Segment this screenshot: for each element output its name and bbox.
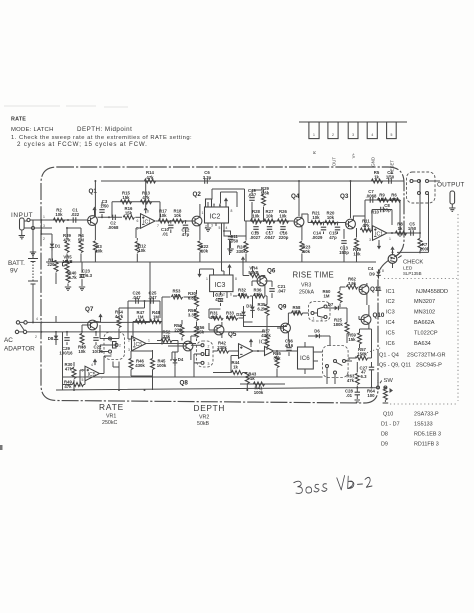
transistor Q2: [192, 216, 202, 226]
svg-text:R5233k: R5233k: [163, 330, 171, 339]
IC2 top pins: [208, 202, 226, 207]
capacitor C12: [183, 225, 188, 228]
svg-text:Q5: Q5: [228, 331, 237, 338]
connector pin 2: [328, 122, 338, 139]
resistor R21: [311, 221, 322, 225]
svg-text:OUTPUT: OUTPUT: [437, 182, 464, 189]
svg-text:R1515k: R1515k: [122, 191, 130, 201]
svg-text:RD11FB 3: RD11FB 3: [414, 442, 439, 448]
svg-text:250kA: 250kA: [299, 290, 314, 296]
svg-text:8: 8: [235, 277, 237, 281]
wire Q3 collector right: [353, 216, 370, 230]
svg-text:VR3: VR3: [301, 283, 311, 289]
wire C19 R29 top: [252, 189, 264, 191]
svg-text:R45100k: R45100k: [157, 359, 167, 368]
svg-text:C26.047: C26.047: [132, 291, 141, 300]
resistor R17: [158, 219, 169, 223]
svg-text:BATT.: BATT.: [8, 260, 25, 267]
svg-text:2: 2: [119, 344, 121, 348]
svg-text:RD5.1EB 3: RD5.1EB 3: [414, 432, 441, 438]
diode D2: [241, 309, 246, 318]
svg-text:SW: SW: [384, 378, 394, 384]
svg-text:BA634: BA634: [414, 341, 431, 347]
resistor R50: [180, 325, 184, 336]
wire IC4 out: [253, 350, 298, 352]
resistor R30b: [72, 367, 76, 378]
ground under output jack: [449, 208, 455, 211]
resistor R1: [54, 260, 58, 271]
connector pin 5: [387, 122, 397, 139]
svg-text:C21.047: C21.047: [277, 284, 286, 293]
output jack J2: [450, 191, 455, 204]
resistor R22: [198, 241, 202, 252]
svg-text:R2210k: R2210k: [201, 244, 209, 254]
capacitor C6 on top bus: [205, 178, 208, 183]
ground arrow IC3 elbow: [197, 271, 201, 278]
transistor Q3: [346, 219, 356, 229]
svg-text:IC2: IC2: [210, 214, 221, 221]
capacitor C36: [286, 348, 291, 351]
resistor R19: [355, 238, 359, 249]
node input junction: [40, 219, 42, 221]
op-amp IC1b: [373, 226, 388, 241]
svg-text:Q11: Q11: [370, 286, 382, 293]
svg-text:5: 5: [82, 378, 84, 382]
svg-text:R295.6k: R295.6k: [261, 186, 270, 196]
node after C2: [108, 216, 110, 218]
svg-text:4: 4: [371, 133, 373, 137]
resistor R58: [291, 311, 302, 315]
IC6 BA634: [298, 347, 314, 369]
resistor R57: [356, 356, 367, 360]
transistor Q11: [359, 285, 369, 295]
svg-text:IC1: IC1: [375, 232, 383, 238]
connector CN rail: [299, 121, 407, 123]
diode D8: [54, 333, 59, 342]
resistor R33: [226, 316, 237, 320]
handwritten title: [294, 474, 373, 494]
wire IC3 elbow: [200, 269, 214, 272]
transistor Q4: [294, 217, 304, 227]
svg-text:R332.7k: R332.7k: [226, 311, 235, 320]
wire Q7 base: [82, 325, 88, 332]
svg-text:C111/50: C111/50: [230, 234, 239, 244]
wire footswitch leads: [327, 361, 352, 384]
svg-text:R5615k: R5615k: [197, 325, 205, 334]
wire depth row: [244, 322, 287, 327]
node C3: [101, 216, 103, 218]
wire output column: [419, 181, 421, 252]
resistor R25: [345, 322, 349, 333]
svg-text:AC: AC: [4, 337, 13, 344]
wire VR2 leads: [191, 345, 201, 377]
transistor Q7: [88, 320, 98, 330]
VR3 pot dashed box: [309, 302, 331, 322]
svg-text:R57150k: R57150k: [357, 347, 367, 356]
capacitor C15: [335, 227, 340, 230]
op-amp IC5a: [132, 336, 147, 351]
resistor R31: [212, 316, 223, 320]
svg-text:Q3: Q3: [340, 193, 349, 200]
svg-text:Q10: Q10: [383, 412, 393, 418]
svg-text:C16220p: C16220p: [279, 231, 289, 240]
dotted leader to transistor list: [346, 348, 381, 361]
PCB outline (dash-dot): [41, 167, 404, 403]
svg-text:R1347k: R1347k: [142, 191, 150, 201]
svg-text:D8: D8: [48, 336, 54, 341]
svg-text:5: 5: [219, 226, 221, 230]
node IC1b out: [391, 232, 393, 234]
svg-text:R356.2k: R356.2k: [257, 302, 266, 311]
ground under R3: [94, 251, 96, 262]
connector pin 3: [348, 122, 358, 139]
resistor R6: [389, 198, 400, 202]
svg-text:BA662A: BA662A: [414, 320, 435, 326]
resistor R36: [253, 294, 264, 298]
resistor R48: [150, 320, 161, 324]
wire top bus taps: [95, 181, 350, 218]
ground under IC2 pin1: [205, 228, 211, 231]
svg-text:1: 1: [148, 339, 150, 343]
IC2 BBD MN3207: [205, 207, 229, 223]
wire IC1a out to Q2: [156, 220, 192, 222]
op-amp IC5b: [85, 366, 100, 381]
feedback wire over IC1b: [365, 200, 400, 237]
wire Q2 collector up: [199, 204, 201, 217]
svg-text:7: 7: [157, 224, 159, 228]
wire IC3 clock lines up: [222, 223, 230, 271]
svg-text:1: 1: [377, 380, 379, 384]
svg-text:9V: 9V: [10, 268, 19, 275]
svg-text:6: 6: [137, 219, 139, 223]
capacitor C13: [341, 241, 346, 244]
footswitch contacts: [326, 365, 329, 368]
capacitor C14: [321, 227, 326, 230]
svg-text:4: 4: [36, 317, 38, 321]
resistor R5 on top bus: [371, 179, 382, 183]
capacitor C26: [136, 298, 139, 303]
zener D9: [376, 269, 381, 278]
svg-text:R1910k: R1910k: [353, 247, 361, 256]
svg-text:R306.8k: R306.8k: [188, 291, 197, 300]
transistor Q5: [214, 325, 224, 335]
resistor R45: [151, 358, 155, 369]
svg-text:1: 1: [313, 317, 315, 321]
svg-text:ADAPTOR: ADAPTOR: [4, 346, 35, 353]
capacitor C23: [79, 275, 84, 278]
IC3 clock MN3102: [210, 275, 233, 292]
resistor R42: [217, 349, 228, 353]
svg-text:MN3207: MN3207: [414, 299, 435, 305]
ground under input jack: [19, 236, 25, 239]
svg-text:V+: V+: [351, 153, 356, 159]
svg-text:D6: D6: [314, 329, 320, 334]
svg-text:R3047k: R3047k: [65, 362, 73, 371]
feedback wire over IC1a: [112, 202, 160, 221]
svg-text:1: 1: [202, 211, 204, 215]
VR1 pot dashed box: [104, 332, 125, 360]
wire Q1 to IC1a: [98, 216, 123, 218]
svg-text:RISE TIME: RISE TIME: [293, 271, 335, 280]
check LED: [388, 255, 397, 264]
resistor R54: [117, 316, 121, 327]
wire Q1 collector to supply bus: [94, 207, 96, 217]
op-amp IC4b buffer: [265, 347, 274, 356]
resistor R63: [355, 373, 359, 384]
capacitor C29: [64, 338, 69, 341]
diode D1: [50, 241, 55, 250]
transistor Q6: [257, 276, 267, 286]
svg-text:1: 1: [110, 352, 112, 356]
resistor R62: [346, 285, 357, 289]
wire Q6 leads: [252, 276, 265, 297]
svg-text:1: 1: [313, 133, 315, 137]
svg-text:R2610k: R2610k: [279, 209, 287, 219]
svg-text:R2810k: R2810k: [252, 209, 260, 219]
wire VR1 bottom leads: [113, 308, 145, 390]
svg-text:R1147k: R1147k: [362, 219, 370, 228]
svg-text:RATE: RATE: [11, 117, 26, 123]
svg-text:D1: D1: [55, 244, 61, 249]
resistor R29: [262, 194, 266, 205]
resistor R52: [161, 339, 172, 343]
wire Q8 leads: [168, 336, 197, 360]
resistor R53: [171, 295, 182, 299]
svg-text:R2710k: R2710k: [266, 209, 274, 219]
svg-text:VR2: VR2: [199, 415, 209, 421]
svg-text:R3110k: R3110k: [210, 311, 218, 320]
resistor R60: [338, 291, 342, 302]
transistor Q8: [183, 341, 193, 351]
diode D7: [332, 306, 341, 311]
wire Q4 emitter to R23: [301, 226, 303, 241]
svg-text:R1615k: R1615k: [125, 206, 133, 216]
resistor R24: [244, 241, 248, 252]
svg-text:1: 1: [206, 277, 208, 281]
wire Q10 leads: [359, 305, 369, 333]
resistor R49: [72, 383, 83, 387]
svg-text:R2310k: R2310k: [303, 245, 311, 255]
svg-text:1: 1: [389, 237, 391, 241]
svg-text:Q2: Q2: [193, 191, 202, 198]
resistor R40: [66, 271, 70, 282]
capacitor C28: [355, 392, 360, 395]
wire R41 row: [240, 383, 285, 385]
footswitch dashed box: [323, 346, 349, 378]
IC3 bottom pins: [214, 292, 228, 298]
wire check led anode: [392, 252, 394, 268]
resistor R4: [79, 241, 83, 252]
svg-text:2: 2: [369, 228, 371, 232]
transistor Q1: [88, 216, 98, 226]
svg-text:VR1: VR1: [106, 414, 116, 420]
svg-text:IC5: IC5: [134, 342, 142, 348]
diode D4: [173, 357, 178, 366]
wire input to Q1 base: [30, 219, 88, 221]
ground bus wire: [46, 261, 376, 263]
svg-text:5: 5: [390, 133, 392, 137]
svg-text:R3615k: R3615k: [254, 288, 262, 297]
svg-text:C4: C4: [368, 266, 374, 271]
svg-text:C25.047: C25.047: [148, 291, 157, 300]
wire IC1a minus input lower: [136, 228, 141, 238]
trimmer VR4: [250, 274, 261, 278]
svg-text:DEPTH: Midpoint: DEPTH: Midpoint: [77, 126, 132, 133]
connector pin 1: [309, 122, 319, 139]
node caps mid: [144, 300, 146, 302]
svg-text:IC2: IC2: [386, 299, 395, 305]
wire IC5a out: [146, 343, 196, 345]
svg-text:D9: D9: [381, 442, 388, 448]
svg-text:R25180k: R25180k: [333, 318, 343, 327]
svg-text:R1810k: R1810k: [174, 209, 182, 219]
svg-text:Q9: Q9: [278, 304, 287, 311]
svg-text:Q5 - Q9, Q11: Q5 - Q9, Q11: [379, 363, 411, 369]
top supply bus wire: [101, 180, 404, 182]
input jack J1: [20, 218, 35, 230]
svg-text:R6347k: R6347k: [347, 374, 355, 383]
svg-text:R: R: [312, 151, 317, 154]
wire osc caps row: [128, 301, 160, 339]
svg-text:3: 3: [128, 348, 130, 352]
IC2 bottom pins: [208, 223, 224, 231]
switch SW: [377, 386, 380, 389]
svg-text:2: 2: [208, 345, 210, 349]
wire mid bus: [63, 376, 323, 378]
svg-text:C1547p: C1547p: [329, 231, 337, 240]
svg-text:Q10: Q10: [373, 312, 385, 319]
wire input lower contacts: [35, 220, 52, 234]
svg-text:Q8: Q8: [180, 380, 189, 387]
resistor R34: [195, 295, 199, 306]
capacitor C22: [93, 338, 98, 341]
wire Q9 leads: [277, 313, 288, 341]
wire battery column: [32, 220, 34, 322]
resistor R39: [65, 241, 69, 252]
IC3 top pins: [214, 269, 230, 275]
trimmer VR5: [65, 260, 69, 271]
resistor R32: [238, 294, 249, 298]
svg-text:2SC732TM-GR: 2SC732TM-GR: [407, 353, 446, 359]
svg-text:2: 2: [35, 335, 37, 339]
VR1 contacts: [109, 337, 112, 340]
svg-text:R24330k: R24330k: [236, 245, 246, 255]
transistor Q9: [281, 323, 291, 333]
svg-text:2 cycles at FCCW; 15 cycles at: 2 cycles at FCCW; 15 cycles at FCW.: [17, 141, 148, 148]
svg-text:R46430k: R46430k: [135, 359, 145, 368]
svg-text:TL022CP: TL022CP: [414, 330, 438, 336]
capacitor C27: [369, 367, 374, 370]
connector pin 4: [367, 122, 377, 139]
resistor R38: [80, 333, 84, 344]
svg-text:1. Check the sweep rate at the: 1. Check the sweep rate at the extremiti…: [11, 135, 192, 141]
resistor R11: [360, 228, 371, 232]
svg-text:Q1 - Q4: Q1 - Q4: [379, 353, 399, 359]
svg-text:R2110k: R2110k: [312, 210, 320, 220]
svg-text:3: 3: [43, 224, 45, 228]
wire Q11 leads: [359, 283, 367, 305]
wire resistor feedback row: [133, 322, 162, 344]
capacitor C1: [73, 217, 76, 222]
capacitor C5: [411, 230, 414, 235]
svg-text:DEPTH: DEPTH: [194, 403, 226, 413]
svg-text:R50220: R50220: [174, 323, 182, 332]
resistor R41: [253, 382, 264, 386]
resistor R56: [195, 326, 199, 337]
enclosure dotted line right: [384, 214, 458, 404]
svg-text:R623.9k: R623.9k: [348, 277, 357, 286]
resistor R12: [135, 241, 139, 252]
svg-text:IC6: IC6: [386, 341, 395, 347]
diode D3: [250, 304, 255, 313]
svg-text:C2047p: C2047p: [215, 293, 223, 302]
wire Q1 emitter down to R3: [94, 224, 96, 240]
svg-text:4: 4: [91, 363, 93, 367]
resistor R9: [377, 198, 388, 202]
capacitor C2: [113, 215, 116, 220]
resistor R20: [325, 221, 336, 225]
capacitor C3: [99, 210, 104, 213]
svg-text:D4: D4: [178, 357, 184, 362]
svg-text:CHECK: CHECK: [403, 260, 423, 266]
resistor R46: [129, 358, 133, 369]
svg-text:IC1: IC1: [386, 289, 395, 295]
svg-text:IC6: IC6: [300, 355, 310, 362]
svg-text:VR450kB: VR450kB: [248, 266, 258, 275]
resistor R27: [264, 219, 275, 223]
svg-text:1: 1: [43, 215, 45, 219]
op-amp IC4a: [239, 344, 254, 359]
power arrow above IC1a: [144, 207, 148, 214]
svg-text:R10: R10: [371, 210, 379, 215]
capacitor C4 on top bus: [389, 178, 392, 183]
diode D6: [313, 334, 322, 339]
node adaptor junctions: [32, 321, 34, 323]
ground bus bottom: [56, 388, 387, 391]
wire R16 to op-amp: [135, 216, 140, 218]
svg-text:R1710k: R1710k: [159, 209, 167, 219]
svg-text:4: 4: [226, 226, 228, 230]
transistor Q10: [361, 315, 371, 325]
svg-text:RATE: RATE: [99, 402, 124, 412]
wire IC1b out: [387, 232, 420, 234]
wire Q4 to Q3: [302, 214, 346, 223]
wire Q2 emitter to R22: [199, 225, 201, 240]
resistor R59: [358, 333, 362, 344]
output jack dashed box: [407, 172, 436, 203]
svg-text:R404.7k: R404.7k: [68, 271, 77, 280]
svg-text:R1210k: R1210k: [138, 244, 146, 254]
svg-text:8: 8: [231, 209, 233, 213]
wire left LFO column: [62, 332, 64, 390]
capacitor C25: [151, 298, 154, 303]
node R39 top: [66, 227, 68, 229]
svg-text:8: 8: [382, 269, 384, 273]
svg-text:Q6: Q6: [267, 268, 276, 275]
resistor R55: [275, 356, 279, 367]
AC adaptor jack: [16, 321, 19, 324]
svg-text:D9: D9: [369, 272, 375, 277]
capacitor C18: [253, 227, 258, 230]
resistor R43: [245, 372, 249, 383]
capacitor C21: [269, 289, 274, 292]
svg-text:D3: D3: [246, 304, 252, 309]
svg-text:GND: GND: [371, 157, 376, 167]
svg-text:2: 2: [223, 293, 225, 297]
wire IC2 loop up: [212, 189, 246, 221]
wire R31 R33 row: [209, 309, 244, 318]
capacitor C16: [280, 227, 285, 230]
